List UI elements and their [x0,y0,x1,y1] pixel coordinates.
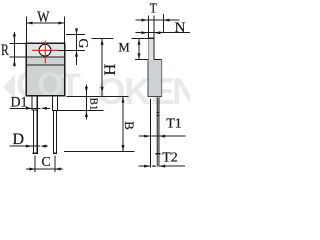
extension line at lead left face [149,99,151,167]
lower line left arrow [154,31,160,34]
dimension H bottom arrow (down) [101,87,104,93]
side view lead tip [156,153,161,155]
front view package body (molded) [26,65,64,96]
svg-text:B1: B1 [87,98,99,111]
svg-text:T1: T1 [166,116,182,131]
dimension R upper arrow (down) [13,34,16,40]
dimension D leader [10,145,32,147]
svg-text:T2: T2 [162,150,178,165]
front view package top edge extension (R) [10,42,27,44]
lead 2 pin [52,110,54,153]
T2 middle arrow [153,165,157,167]
dimension D middle segment [32,145,40,147]
dimension T1 line [139,135,186,137]
dimension D left arrow [40,145,46,148]
dimension D1 leader [10,107,32,109]
svg-text:B: B [122,121,137,130]
side view body bottom edge [148,96,163,98]
dimension T/N lower line [135,32,190,34]
dimension R line lower [13,57,15,66]
svg-text:G: G [76,39,91,49]
hole center line (black, to G) [58,49,86,51]
side view lead [156,97,158,153]
N extension line [162,14,164,33]
svg-text:D: D [13,131,25,148]
mounting hole [39,44,51,56]
dimension R line middle [13,43,15,57]
side view lead extension below tip [156,154,158,167]
dimension B1 lower arrow (up) [85,111,88,117]
side view tab left edge (soft) [148,38,150,59]
front view body boundary line B [26,64,64,66]
dimension B bottom arrow (down) [122,145,125,151]
dimension C line [26,168,63,170]
dimension D1 left arrow [41,107,47,110]
hole crosshair horizontal (red) [32,49,58,51]
lead 1 shoulder [31,96,33,111]
G upper reference line [66,34,85,36]
svg-text:O: O [97,71,126,112]
upper line left arrow [164,19,170,22]
lead 2 shoulder tick + B1 lower extension [52,109,103,111]
upper line right arrow [141,19,147,22]
dimension W right arrow [58,22,64,25]
dimension R line upper [13,32,15,44]
svg-text:H: H [101,64,118,76]
svg-text:T: T [150,2,157,17]
dimension T2 line left [138,165,150,167]
dimension M bottom tick [135,59,148,61]
dimension M bottom arrow (down) [138,53,141,59]
dimension H line [101,39,103,97]
dimension G upper arrow (down) [75,28,78,34]
watermark ghost inside bodies [37,66,175,112]
dimension C extension lines [34,156,36,172]
dimension T extension lines [148,16,150,39]
dimension D tail [46,145,49,147]
dimension G lower arrow (up) [75,51,78,57]
dimension M top tick (with H ext segment) [132,38,149,40]
svg-text:K: K [124,71,151,112]
lead 1 tip [33,152,38,154]
T2 left arrow [159,165,165,168]
dimension H top arrow (up) [101,39,104,45]
front view package tab (hole section) [26,43,64,57]
dimension C right arrow [55,168,61,171]
svg-text:R: R [1,42,9,59]
package bottom extension line [67,95,129,97]
dimension M line [138,39,140,60]
dimension T/N upper line [135,19,179,21]
dimension D right arrow [26,145,32,148]
lead 1 pin [32,110,34,153]
dimension D1 tail [46,107,50,109]
dimension W line [26,22,64,24]
svg-text:W: W [37,9,50,26]
dimension T2 line right [159,165,185,167]
side view tab top edge [148,37,155,39]
dimension B1 upper arrow (down) [85,87,88,93]
dimension W extension lines [25,16,27,43]
side view step line [154,59,162,61]
side view lead ticks [157,111,160,113]
dimension M top arrow (up) [138,39,141,45]
lead 1 shoulder tick [32,109,38,111]
dimension B top arrow (up) [122,97,125,103]
side view body left edge [147,60,149,97]
svg-text:C: C [41,155,50,170]
svg-text:M: M [118,41,129,55]
dimension R lower arrow (up) [13,60,16,66]
side view tab fill [149,38,154,59]
front view package mid strip [26,57,64,65]
hole crosshair vertical (red) [44,41,46,64]
dimension B1 line [85,84,87,119]
dimension D1 right arrow [26,107,32,110]
front view tab/body boundary line A [10,56,65,58]
lead 2 shoulder [51,96,53,111]
T1 right arrow [144,135,150,138]
dimension C left arrow [29,168,35,171]
dimension W left arrow [27,22,33,25]
T2 arrow at ext line [144,165,150,168]
lead 2 tip [53,152,57,154]
side view body right edge (soft) [161,60,163,97]
T1 left arrow [159,135,165,138]
front view package outline [26,43,64,95]
svg-text:N: N [172,71,190,112]
side view tab right edge [153,38,155,59]
dimension D1 middle [32,107,41,109]
lower line right arrow [141,31,147,34]
dimension G line [76,29,78,65]
dimension B line [122,96,124,151]
watermark logo triangle [3,75,15,100]
side view body [148,60,162,97]
dimension B bottom extension line [64,150,134,152]
dimension H top extension line [91,38,113,40]
svg-text:N: N [175,20,186,36]
